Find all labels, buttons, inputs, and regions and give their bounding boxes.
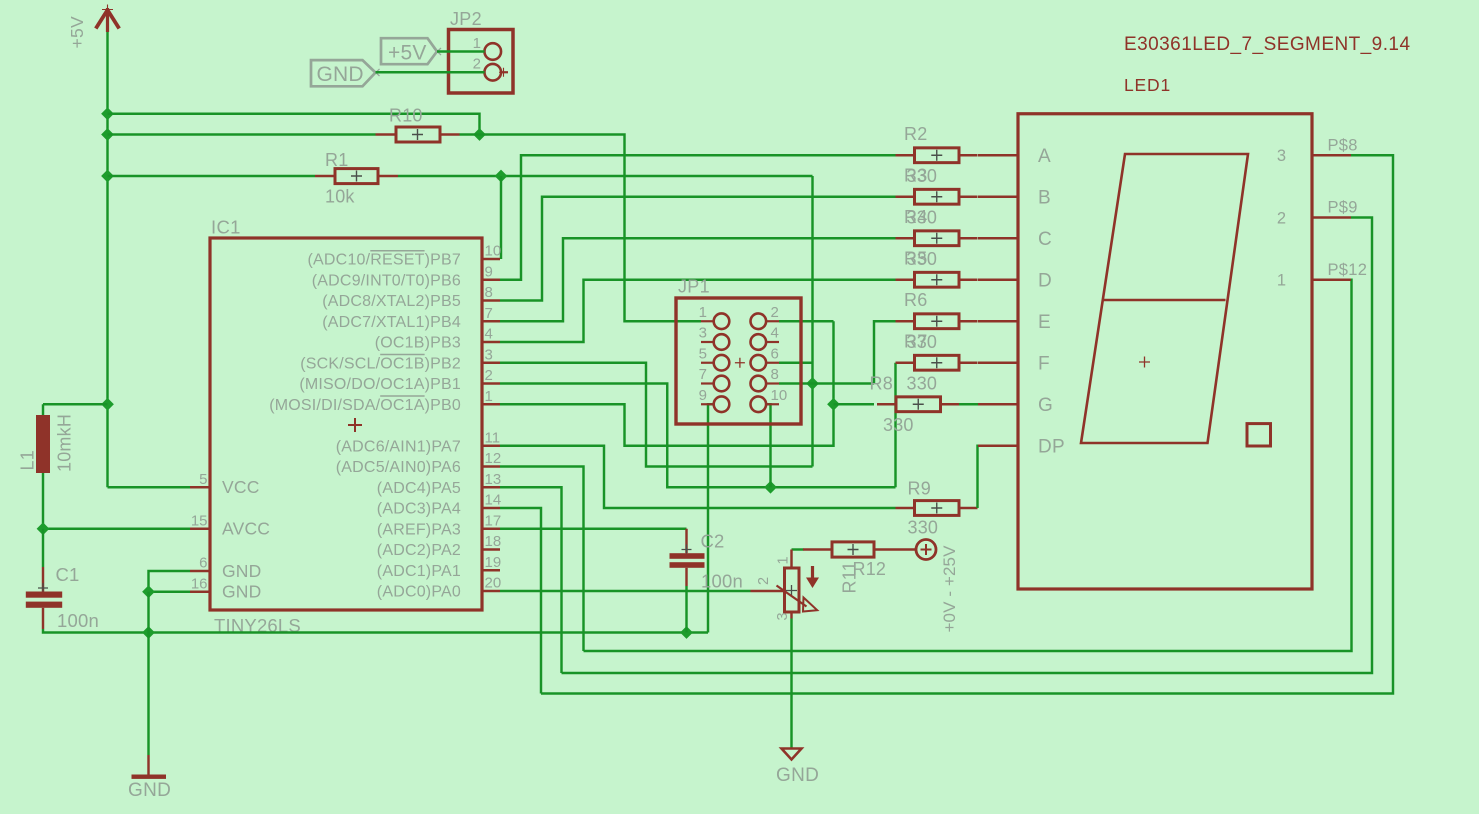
wire GND pin16 [149, 591, 191, 593]
resistor R1 [315, 150, 398, 207]
wire VCC feed [108, 486, 191, 488]
JP1 pin 6 [751, 345, 780, 370]
svg-text:12: 12 [485, 450, 502, 467]
wire C2 to GND line [685, 586, 687, 633]
resistor R8 [870, 374, 960, 412]
svg-text:2: 2 [1277, 209, 1286, 227]
svg-text:(ADC10/RESET)PB7: (ADC10/RESET)PB7 [308, 252, 461, 269]
IC1 pin 19 stub [482, 569, 500, 571]
JP1 pin 4 [751, 325, 780, 350]
svg-text:LED1: LED1 [1124, 75, 1171, 95]
LED1 pin A stub [978, 154, 1018, 156]
IC1 pin 7 stub [482, 320, 500, 322]
wire pin9 to R2 line (segment A) [500, 155, 896, 280]
resistor R7 [896, 332, 978, 371]
svg-text:3: 3 [699, 325, 707, 342]
resistor R9 [896, 479, 978, 538]
svg-text:6: 6 [771, 345, 779, 362]
flag tip cross [434, 48, 442, 55]
svg-text:11: 11 [485, 429, 501, 446]
svg-text:(ADC4)PA5: (ADC4)PA5 [377, 480, 461, 497]
svg-text:5: 5 [199, 471, 207, 488]
net flag +5V [381, 38, 437, 64]
svg-text:R1: R1 [325, 150, 348, 170]
IC1 pin 15 stub [190, 528, 210, 530]
wire bottom line 2 to LED P$9 [562, 218, 1373, 674]
wire R11 pin3 to GND [790, 619, 792, 749]
svg-text:3: 3 [775, 612, 791, 620]
svg-text:E: E [1038, 312, 1051, 333]
svg-text:+5V: +5V [67, 16, 87, 49]
wire +5V to L1 branch [43, 403, 108, 405]
resistor R5 [896, 249, 978, 288]
LED1 pin B stub [978, 196, 1018, 198]
wire R11 pin1 to R12 [792, 548, 804, 550]
JP1 origin cross [735, 358, 745, 368]
svg-text:100n: 100n [57, 610, 99, 631]
svg-text:18: 18 [485, 533, 502, 550]
svg-text:L1: L1 [18, 450, 38, 470]
svg-text:19: 19 [485, 554, 502, 571]
ground symbol GND (R11) [776, 749, 819, 787]
net flag GND [311, 60, 376, 86]
wire pin12 to bottom line 1 [500, 467, 584, 652]
LED1 pin E stub [978, 320, 1018, 322]
resistor R2 [896, 124, 978, 163]
IC1 pin 6 stub [190, 570, 210, 572]
svg-text:(ADC3)PA4: (ADC3)PA4 [377, 501, 461, 518]
svg-text:330: 330 [907, 373, 938, 393]
JP1 pin 1 [699, 304, 730, 329]
wire pin14 to bottom line 3 [500, 508, 541, 694]
IC1 pin 14 stub [482, 507, 500, 509]
svg-text:1: 1 [485, 388, 493, 405]
wire GND flag to JP2 pin2 [376, 71, 485, 73]
wire L1 to AVCC junction [42, 473, 44, 529]
svg-text:JP2: JP2 [450, 9, 482, 29]
wire pin4 to R5 line (segment D) [500, 280, 896, 342]
IC1 pin 5 stub [190, 486, 210, 488]
wire +5V to R10 [108, 133, 376, 135]
svg-text:15: 15 [191, 512, 208, 529]
capacitor C1 [26, 564, 99, 631]
svg-text:(ADC2)PA2: (ADC2)PA2 [377, 542, 461, 559]
wire reset riser x812 [811, 176, 813, 467]
junction [101, 170, 114, 183]
svg-text:17: 17 [485, 512, 502, 529]
svg-text:330: 330 [907, 249, 938, 269]
svg-text:(ADC0)PA0: (ADC0)PA0 [377, 584, 461, 601]
wire pin17 to C2 [500, 528, 687, 530]
LED1 digit-8 outline [1081, 154, 1248, 443]
svg-text:B: B [1038, 188, 1051, 209]
wire JP1 pin8 to reset junction [779, 382, 813, 384]
LED1 pin DP stub [978, 445, 1018, 447]
svg-text:AVCC: AVCC [222, 519, 270, 539]
wire pin20 to R11 wiper [500, 590, 751, 592]
junction [142, 626, 155, 639]
LED1 pin D stub [978, 279, 1018, 281]
LED1 pin C stub [978, 237, 1018, 239]
svg-text:1: 1 [473, 35, 481, 52]
svg-text:GND: GND [128, 780, 171, 801]
overlines on active-low pin names [370, 251, 424, 396]
svg-text:(MISO/DO/OC1A)PB1: (MISO/DO/OC1A)PB1 [299, 376, 461, 393]
svg-text:P$9: P$9 [1328, 199, 1358, 217]
svg-text:330: 330 [883, 415, 914, 435]
svg-text:F: F [1038, 354, 1050, 375]
svg-text:10: 10 [771, 387, 788, 404]
wire JP1 pin9 to GND line [708, 404, 714, 632]
capacitor C2 [670, 531, 743, 592]
svg-text:330: 330 [907, 166, 938, 186]
svg-text:P$8: P$8 [1328, 136, 1358, 154]
svg-text:(ADC7/XTAL1)PB4: (ADC7/XTAL1)PB4 [322, 314, 461, 331]
potentiometer R11 [751, 550, 860, 621]
resistor R10 [376, 106, 460, 143]
svg-text:4: 4 [485, 326, 493, 343]
svg-text:9: 9 [485, 263, 493, 280]
wire pin11 to R9 line (segment DP) [500, 446, 896, 508]
svg-text:(AREF)PA3: (AREF)PA3 [377, 521, 461, 538]
svg-text:A: A [1038, 146, 1051, 167]
svg-text:2: 2 [485, 367, 493, 384]
wire C2 top lead [685, 529, 687, 553]
svg-text:10k: 10k [325, 187, 355, 207]
wire F net riser to R7 [894, 363, 896, 488]
IC1 pin 2 stub [482, 382, 500, 384]
svg-text:R6: R6 [904, 290, 927, 310]
svg-text:8: 8 [485, 284, 493, 301]
IC1 pin 12 stub [482, 465, 500, 467]
svg-text:10: 10 [485, 243, 502, 260]
IC1 pin 11 stub [482, 445, 500, 447]
wire pin13 to bottom line 2 [500, 487, 562, 673]
IC1 pin 3 stub [482, 362, 500, 364]
+5V supply symbol [96, 5, 119, 33]
svg-text:+0V - +25V: +0V - +25V [940, 545, 959, 633]
wire JP1 pin2 to G net [779, 320, 834, 322]
svg-text:(ADC1)PA1: (ADC1)PA1 [377, 563, 461, 580]
svg-text:4: 4 [771, 325, 779, 342]
svg-text:R9: R9 [908, 479, 931, 499]
JP1 pin 2 [751, 304, 780, 329]
svg-text:5: 5 [699, 345, 707, 362]
svg-text:C2: C2 [701, 531, 725, 552]
svg-text:DP: DP [1038, 437, 1065, 458]
connector JP1 [676, 277, 801, 425]
wire reset to IC pin10 [500, 176, 502, 259]
svg-text:IC1: IC1 [211, 217, 241, 238]
LED1 pin P$12 [1311, 279, 1351, 281]
wire GND stem [147, 592, 149, 755]
wire bottom line 3 to LED P$8 [541, 155, 1393, 693]
junction [101, 128, 114, 141]
svg-text:P$12: P$12 [1328, 261, 1368, 279]
JP1 pin 7 [699, 366, 730, 391]
svg-text:R12: R12 [853, 559, 887, 579]
svg-text:R8: R8 [870, 374, 893, 394]
resistor R12 [803, 542, 916, 579]
junction [142, 585, 155, 598]
junction [806, 377, 819, 390]
resistor R3 [896, 166, 978, 205]
svg-text:(ADC5/AIN0)PA6: (ADC5/AIN0)PA6 [336, 459, 461, 476]
svg-text:JP1: JP1 [678, 277, 710, 297]
wire pin2 to F net riser [500, 384, 896, 488]
wire reset junction to R6 riser [813, 382, 875, 384]
svg-text:9: 9 [699, 387, 707, 404]
IC1 pin 1 stub [482, 403, 500, 405]
LED1 pin P$9 [1311, 216, 1351, 218]
wire GND pin6 [149, 571, 191, 592]
svg-text:100n: 100n [701, 571, 743, 592]
svg-text:(ADC6/AIN1)PA7: (ADC6/AIN1)PA7 [336, 438, 461, 455]
svg-text:R10: R10 [389, 106, 423, 126]
resistor R4 [896, 207, 978, 246]
svg-text:C1: C1 [56, 564, 80, 585]
svg-text:7: 7 [485, 305, 493, 322]
wire top +5V branch [108, 114, 480, 135]
wire C1 to GND line [43, 629, 708, 633]
svg-text:(ADC8/XTAL2)PB5: (ADC8/XTAL2)PB5 [322, 293, 461, 310]
wire pin1 to G net [500, 321, 834, 446]
wire bottom line 1 to LED P$12 [584, 280, 1352, 651]
junction [473, 128, 486, 141]
svg-text:10mkH: 10mkH [55, 414, 75, 472]
JP1 pin 8 [751, 366, 780, 391]
svg-text:3: 3 [485, 346, 493, 363]
wire R1 to reset net [398, 175, 813, 177]
svg-text:330: 330 [907, 332, 938, 352]
svg-text:16: 16 [191, 575, 208, 592]
svg-text:VCC: VCC [222, 477, 260, 497]
junction [101, 398, 114, 411]
junction [495, 170, 508, 183]
wire JP1 pin10 to F net [766, 404, 771, 487]
svg-text:1: 1 [1277, 272, 1286, 290]
wire pin8 to R3 line (segment B) [500, 197, 896, 301]
svg-text:6: 6 [199, 555, 207, 572]
inductor L1 [18, 404, 75, 473]
svg-text:3: 3 [1277, 147, 1286, 165]
supply symbol +0V-+25V [916, 540, 959, 633]
connector JP2 [449, 9, 514, 93]
svg-text:R2: R2 [904, 124, 927, 144]
LED1 pin G stub [978, 403, 1018, 405]
junction [37, 522, 50, 535]
wire R9 to LED DP [976, 446, 979, 508]
IC1 pin 4 stub [482, 341, 500, 343]
wire R6 riser [874, 321, 896, 383]
svg-text:GND: GND [222, 582, 262, 602]
LED1 decimal point square [1247, 424, 1271, 446]
svg-text:8: 8 [771, 366, 779, 383]
wire G net to R8 [834, 403, 875, 405]
svg-text:20: 20 [485, 575, 502, 592]
IC1 pin 18 stub [482, 548, 500, 550]
IC1 pin 13 stub [482, 486, 500, 488]
IC1 pin 9 stub [482, 279, 500, 281]
svg-text:(OC1B)PB3: (OC1B)PB3 [375, 335, 461, 352]
svg-text:(SCK/SCL/OC1B)PB2: (SCK/SCL/OC1B)PB2 [300, 355, 461, 372]
svg-text:(ADC9/INT0/T0)PB6: (ADC9/INT0/T0)PB6 [312, 272, 461, 289]
svg-text:GND: GND [222, 561, 262, 581]
wire AVCC feed [43, 528, 190, 530]
svg-text:(MOSI/DI/SDA/OC1A)PB0: (MOSI/DI/SDA/OC1A)PB0 [269, 397, 461, 414]
svg-text:GND: GND [776, 765, 819, 786]
LED1 pin P$8 [1311, 154, 1351, 156]
LED display LED1 [1018, 75, 1312, 589]
svg-text:C: C [1038, 229, 1052, 250]
svg-text:GND: GND [317, 63, 364, 86]
wire +5V vertical rail [106, 32, 108, 487]
svg-text:1: 1 [776, 556, 792, 564]
IC1 pin 16 stub [190, 591, 210, 593]
IC1 pin 8 stub [482, 299, 500, 301]
svg-text:2: 2 [473, 56, 481, 73]
flag tip cross [372, 69, 380, 76]
svg-text:330: 330 [907, 207, 938, 227]
wire JP1 pin6 to reset riser [779, 362, 813, 364]
svg-text:14: 14 [485, 492, 502, 509]
wire pin3 to reset riser [500, 363, 813, 467]
svg-text:D: D [1038, 271, 1052, 292]
svg-text:7: 7 [699, 366, 707, 383]
wire R8 to LED G stub [959, 403, 978, 405]
svg-text:2: 2 [756, 577, 772, 585]
junction [101, 107, 114, 120]
resistor R6 [896, 290, 978, 329]
ground symbol GND (bottom left) [128, 755, 171, 801]
svg-text:2: 2 [771, 304, 779, 321]
svg-text:1: 1 [699, 304, 707, 321]
JP1 pin 9 [699, 387, 730, 412]
JP1 pin 10 [751, 387, 788, 412]
IC1 pin 10 stub [482, 258, 500, 260]
LED1 pin F stub [978, 362, 1018, 364]
svg-text:E30361LED_7_SEGMENT_9.14: E30361LED_7_SEGMENT_9.14 [1124, 34, 1410, 55]
IC1 pin 17 stub [482, 528, 500, 530]
LED1 origin cross [1139, 357, 1150, 368]
IC1 origin cross [348, 418, 362, 432]
svg-text:330: 330 [908, 518, 939, 538]
junction [764, 481, 777, 494]
wire R10 to JP1 pin1 riser [460, 135, 702, 322]
wire +5V flag to JP2 pin1 [437, 50, 485, 52]
wire AVCC junction down to C1 [42, 529, 44, 567]
junction [827, 398, 840, 411]
svg-text:+5V: +5V [388, 42, 427, 65]
wire pin7 to R4 line (segment C) [500, 238, 896, 321]
JP1 pin 5 [699, 345, 730, 370]
junction [680, 626, 693, 639]
JP1 pin 3 [699, 325, 730, 350]
svg-text:13: 13 [485, 471, 502, 488]
svg-text:G: G [1038, 395, 1053, 416]
IC1 pin 20 stub [482, 590, 500, 592]
wire +5V to R1 [108, 175, 316, 177]
